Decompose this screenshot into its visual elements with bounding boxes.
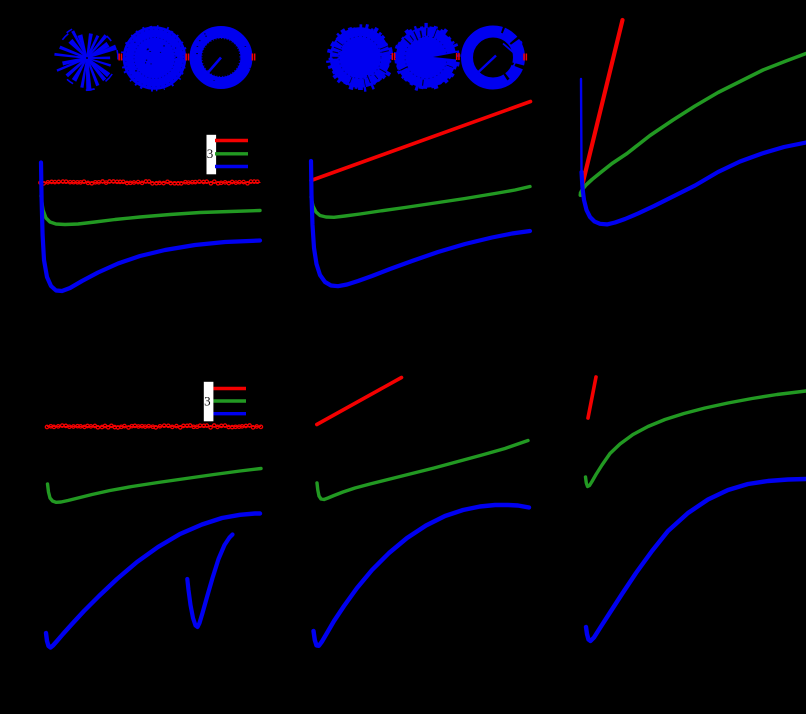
panel C red line [583,20,623,184]
panel D blue main curve [46,514,260,648]
panel A red dotted series [39,180,261,185]
svg-text:3: 3 [207,146,214,161]
panel A green curve [41,196,260,225]
panel D green curve [48,469,262,503]
red tick right of inset 3 [252,54,256,61]
panel D blue V curve [187,535,232,628]
panel F green curve [586,391,806,487]
panel E red line [317,378,402,425]
panel E green curve [317,441,528,500]
panel C blue vertical line [580,79,583,172]
svg-text:3: 3 [204,393,211,408]
panel F blue curve [586,479,806,641]
panel B blue curve [311,161,530,286]
circle inset 2: dotted disk [121,25,187,91]
panel F red line [588,377,596,418]
circle inset 6: rough ring [464,25,526,84]
panel B red line [311,102,531,181]
panel B green curve [311,187,530,218]
panel C green start dot [579,193,583,197]
panel A blue curve [41,163,260,292]
panel A legend [207,135,249,175]
circle inset 1: starburst [54,29,118,91]
red tick between insets 1-2 [118,54,122,61]
circle inset 4: spiky disk [326,24,393,91]
red tick between insets 2-3 [185,54,189,61]
panel D red dotted series [45,424,262,429]
red tick between insets 4-5 [392,53,396,60]
panel D legend [204,382,246,422]
red tick right of inset 6 [523,54,527,61]
circle inset 5: spiky disk with notch [394,23,461,91]
panel C green curve [581,54,806,194]
circle inset 3: ring with radius line [196,32,251,83]
panel C blue curve [582,143,806,225]
red tick between insets 5-6 [456,53,460,60]
panel E blue curve [314,505,530,646]
